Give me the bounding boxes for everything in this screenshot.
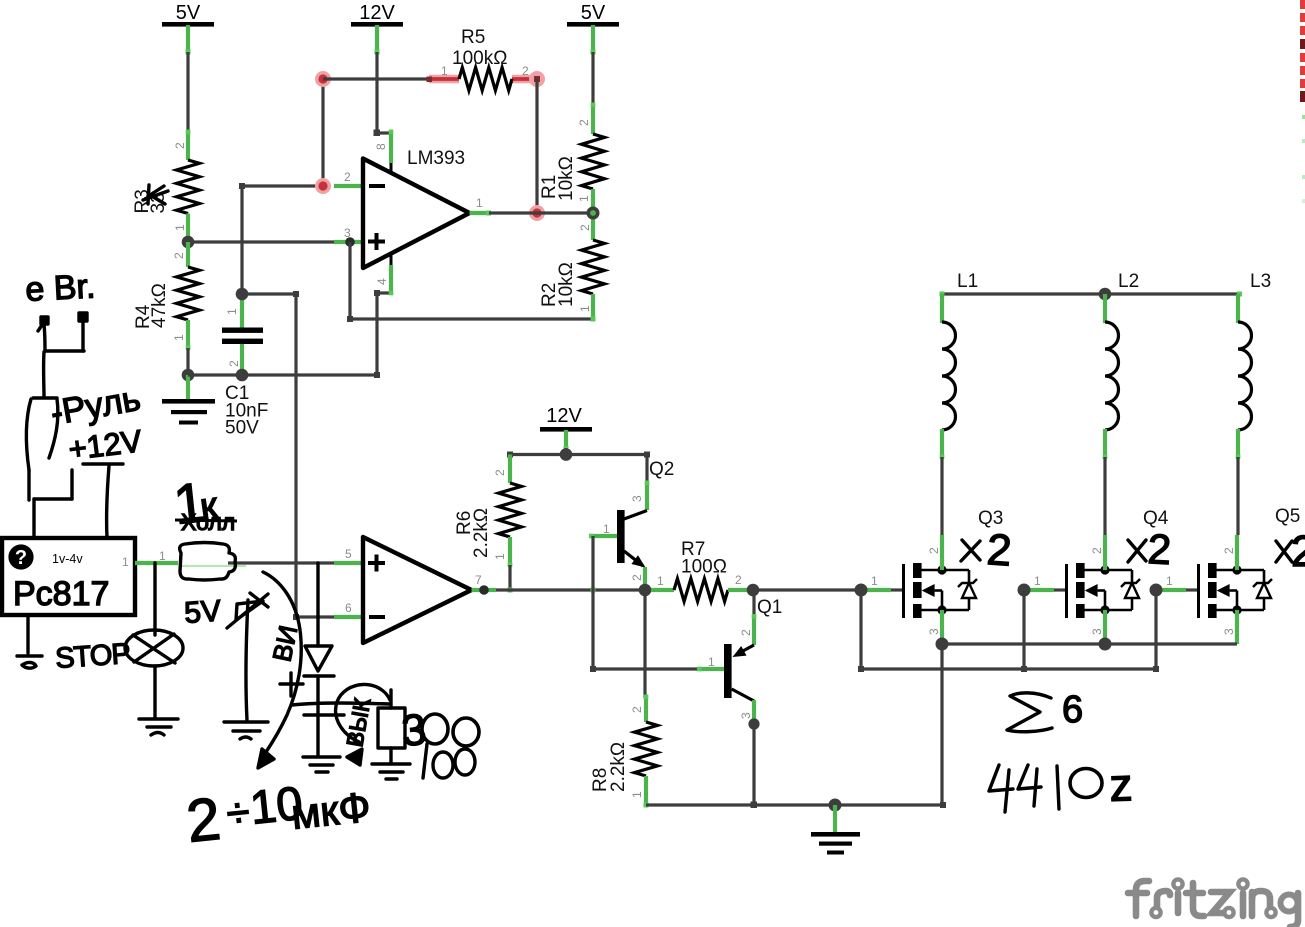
resistor R1 10k [539, 103, 605, 214]
gate bus wire below mosfets [859, 590, 862, 669]
junction dot C1 top [236, 288, 249, 301]
wire to op-amp2 pin6 [296, 615, 334, 618]
handwritten "x 2" at Q4 [1128, 540, 1146, 562]
svg-text:Pc817: Pc817 [13, 575, 109, 613]
svg-text:2: 2 [522, 64, 529, 78]
svg-text:1: 1 [476, 196, 483, 210]
wire 5V rail to R3 [186, 52, 189, 133]
svg-text:Q5: Q5 [1275, 506, 1300, 527]
svg-text:5V: 5V [176, 2, 201, 24]
svg-text:3: 3 [400, 705, 429, 756]
transistor Q1 (PNP) [697, 590, 756, 723]
svg-text:12V: 12V [546, 405, 582, 427]
junction dot C1 bottom [236, 369, 249, 382]
svg-text:2: 2 [985, 525, 1013, 576]
wire L3 to Q5 drain [1236, 457, 1239, 535]
corner [374, 372, 380, 378]
svg-text:3: 3 [927, 628, 941, 635]
wire Q2 base column down to Q1 base [593, 536, 699, 669]
svg-text:3: 3 [739, 712, 753, 719]
svg-text:1: 1 [577, 195, 591, 202]
wire op-amp1 output to R1/R2 node [489, 211, 593, 214]
svg-text:÷: ÷ [224, 788, 252, 837]
svg-text:2: 2 [493, 469, 507, 476]
handwritten "x 2" at Q3 [961, 540, 980, 561]
resistor R6 2.2k [454, 455, 522, 568]
wire Q2 emitter node down to R8 [643, 590, 646, 698]
source bus wire Q3-Q4-Q5 [942, 642, 1237, 645]
fritzing logo [1128, 881, 1298, 927]
svg-text:2.2kΩ: 2.2kΩ [471, 508, 492, 558]
svg-text:6: 6 [1062, 689, 1083, 731]
transistor Q2 (NPN) [589, 459, 674, 586]
resistor R2 10k [539, 213, 605, 322]
svg-text:1v-4v: 1v-4v [52, 552, 83, 566]
junction dot R3-R4 [182, 236, 195, 249]
svg-text:1: 1 [441, 64, 448, 78]
svg-text:1: 1 [159, 549, 166, 563]
hand-drawn long curve with arrow [258, 572, 301, 768]
svg-text:1: 1 [871, 574, 878, 588]
ground symbol (top left) [162, 375, 215, 425]
svg-text:3: 3 [630, 495, 644, 502]
svg-text:1: 1 [122, 555, 129, 569]
svg-text:1: 1 [630, 791, 644, 798]
svg-text:50V: 50V [225, 418, 259, 439]
top bus wire L1-L2-L3 [942, 292, 1240, 295]
wire R6 bottom to output line [508, 565, 511, 590]
svg-text:2: 2 [172, 252, 186, 259]
mosfet Q4 [1029, 535, 1140, 644]
svg-text:мкФ: мкФ [289, 783, 373, 838]
svg-text:2: 2 [1222, 547, 1236, 554]
wire 12V to op-amp pin 8 [375, 52, 378, 133]
junction dot Q2 emitter / R7 / R8 [639, 584, 652, 597]
resistor R7 100 ohm [651, 539, 749, 602]
resistor R5 100k (red highlighted pins) [427, 27, 538, 91]
svg-text:Q1: Q1 [757, 597, 782, 618]
handwritten "44|0 z" [989, 765, 1013, 812]
svg-text:10kΩ: 10kΩ [556, 262, 577, 307]
power +5V rail symbol (left) [162, 2, 214, 55]
junction dot Q4 source [1099, 638, 1112, 651]
svg-text:2.2kΩ: 2.2kΩ [608, 742, 629, 792]
hand-drawn zener diode [224, 593, 268, 739]
power +12V rail symbol (middle) [540, 405, 592, 451]
svg-text:?: ? [15, 547, 27, 569]
wire hand-resistor to op-amp2 pin5 [228, 561, 334, 564]
corner at 242,186 [239, 183, 245, 189]
svg-text:3: 3 [1222, 628, 1236, 635]
svg-text:2: 2 [173, 142, 187, 149]
wire R5 down to output [535, 79, 538, 213]
op-amp U1 LM393 [334, 130, 491, 295]
hand-drawn connector squares and leads [26, 313, 123, 538]
wire op-amp1 pin4 down to bottom rail [377, 293, 391, 375]
red dashed strip (right edge) [1300, 0, 1305, 203]
junction dot Q3 source [936, 638, 949, 651]
wire op-amp2 output to Q2 emitter node [496, 588, 645, 591]
svg-text:2: 2 [577, 119, 591, 126]
ground rail wire (bottom middle) [646, 803, 943, 806]
svg-text:STOP: STOP [54, 638, 130, 675]
hand-drawn lamp with X [125, 563, 183, 735]
svg-text:L3: L3 [1250, 271, 1271, 292]
svg-text:1: 1 [225, 308, 239, 315]
junction dot Q1 collector [748, 718, 759, 729]
svg-text:100kΩ: 100kΩ [452, 48, 507, 69]
red feedback wire: vertical at x=323 [321, 79, 324, 186]
wire vertical riser x=296 [294, 294, 297, 617]
svg-text:2: 2 [739, 629, 753, 636]
svg-text:2: 2 [183, 785, 223, 855]
svg-text:8: 8 [374, 143, 388, 150]
wire C1 top to minus-input column [240, 186, 243, 294]
svg-text:1: 1 [1034, 574, 1041, 588]
junction dot at R4/C1 bottom rail [182, 369, 195, 382]
hand-drawn resistor blob on PC817 output [180, 543, 236, 581]
svg-text:3: 3 [1090, 628, 1104, 635]
junction dot Q5 gate [1150, 584, 1163, 597]
svg-text:10kΩ: 10kΩ [556, 156, 577, 201]
svg-text:5V: 5V [183, 595, 222, 630]
svg-text:7: 7 [475, 573, 482, 587]
junction dot R7 pin2 / Q1 emitter [747, 584, 760, 597]
wire 12V rail across R6 top to Q2 collector [564, 448, 567, 455]
op-amp U3 (second comparator) [334, 537, 496, 643]
wire L1 to Q3 drain [940, 457, 943, 535]
svg-text:1: 1 [657, 574, 664, 588]
resistor R4 47k [133, 242, 200, 350]
resistor R8 2.2k [590, 695, 658, 808]
wire Q1 collector to ground rail [752, 724, 755, 805]
svg-text:12V: 12V [359, 2, 395, 24]
capacitor C1 10nF 50V [222, 294, 268, 439]
svg-text:L1: L1 [957, 271, 978, 292]
svg-text:LM393: LM393 [407, 148, 465, 169]
wire red node to R5 [323, 77, 430, 80]
handwritten "+" [280, 673, 303, 696]
power +5V rail symbol (right) [567, 2, 619, 55]
svg-text:1: 1 [493, 553, 507, 560]
hand-drawn ground below PC817 [17, 615, 42, 668]
svg-text:100Ω: 100Ω [681, 557, 727, 578]
svg-text:1: 1 [603, 522, 610, 536]
inductor L2 [1103, 271, 1139, 459]
inductor L3 [1236, 271, 1271, 459]
wire L2 to Q4 drain [1103, 457, 1106, 535]
svg-text:47kΩ: 47kΩ [149, 283, 170, 328]
mosfet Q3 [866, 535, 977, 644]
svg-text:1: 1 [172, 334, 186, 341]
junction dot Q3 gate [855, 584, 868, 597]
svg-text:2: 2 [578, 224, 592, 231]
hand-drawn curls to resistor box [292, 684, 390, 765]
svg-text:2: 2 [630, 574, 644, 581]
ground symbol (bottom middle) [811, 805, 860, 855]
svg-text:L2: L2 [1118, 271, 1139, 292]
svg-text:1: 1 [173, 224, 187, 231]
svg-text:4: 4 [375, 278, 389, 285]
power +12V rail symbol (top middle) [351, 2, 403, 55]
svg-text:2: 2 [344, 170, 351, 184]
junction dot ground rail [829, 799, 842, 812]
node R3/R4 junction to op-amp pin3 wire [188, 240, 334, 243]
svg-text:2: 2 [927, 547, 941, 554]
svg-text:1: 1 [578, 305, 592, 312]
svg-text:2: 2 [1291, 527, 1305, 576]
wire 242,186 to red node [242, 184, 323, 187]
wire 5V (right) to R1 [591, 52, 594, 106]
optocoupler U2 PC817 box [2, 538, 135, 615]
svg-text:e Br.: e Br. [24, 267, 96, 309]
svg-text:2: 2 [630, 706, 644, 713]
junction dot output/R1/R2 (green core) [587, 207, 600, 220]
svg-text:R5: R5 [461, 27, 485, 48]
svg-text:2: 2 [1090, 547, 1104, 554]
junction dot L2 top [1099, 288, 1112, 301]
wire Q3 source down to ground rail [940, 644, 943, 805]
hand-drawn resistor box "300" [372, 690, 410, 779]
wire R4 to ground junction [186, 348, 189, 375]
handwritten "Σ 6" [1007, 693, 1052, 732]
bottom rail wire R4-C1-pin4 riser [188, 373, 377, 376]
red node dots [315, 71, 331, 87]
wire C1 top to op-amp2 minus input (long riser) [242, 292, 296, 295]
svg-text:Q2: Q2 [649, 459, 674, 480]
svg-text:6: 6 [345, 601, 352, 615]
wire op-amp1 pin3 down and right to R2 bottom [350, 242, 593, 319]
wire R7 to gate bus [749, 588, 866, 591]
svg-text:1: 1 [1166, 574, 1173, 588]
hand-drawn LED branch [303, 563, 340, 772]
mosfet Q5 [1161, 535, 1272, 644]
svg-text:2: 2 [735, 573, 742, 587]
svg-text:2: 2 [227, 360, 241, 367]
inductor L1 [940, 271, 978, 459]
svg-text:z: z [1109, 758, 1134, 811]
svg-text:5: 5 [345, 547, 352, 561]
handwritten "100" [423, 744, 427, 778]
svg-text:5V: 5V [581, 2, 606, 24]
PC817 pin 1 green lead [135, 561, 178, 565]
handwritten K over R3 value [143, 185, 168, 204]
junction dot op-amp pin3 [345, 237, 355, 247]
handwritten "x 2" at Q5 [1276, 541, 1292, 562]
svg-text:2: 2 [1147, 525, 1173, 573]
svg-text:1: 1 [708, 655, 715, 669]
red dot R5 pin2 node [529, 71, 545, 87]
junction dot Q4 gate [1018, 584, 1031, 597]
resistor R3 33k [132, 130, 200, 243]
